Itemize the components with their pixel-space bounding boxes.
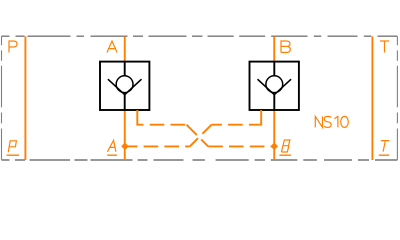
wire P port line <box>24 36 26 160</box>
enclosure border left <box>1 36 3 160</box>
check valve V1 seat <box>108 79 142 95</box>
subplate label T underline <box>379 154 389 156</box>
pilot line V1 upper horizontal (dashed) <box>144 124 187 126</box>
enclosure border bottom <box>2 159 398 161</box>
port label T (top) <box>380 41 389 53</box>
enclosure border right <box>396 36 398 160</box>
pilot line lower left solid stub at node A <box>125 145 137 147</box>
check valve V2 seat <box>258 79 292 95</box>
pilot line lower left dashed <box>137 145 189 147</box>
enclosure border top (subplate outline, dash-dot) <box>2 35 398 37</box>
pilot stub V2 (solid elbow) <box>259 110 261 125</box>
size label NS10 <box>315 116 348 127</box>
wire B port line upper <box>273 36 275 61</box>
port label P (top) <box>9 41 17 53</box>
node B junction diamond <box>271 143 279 151</box>
wire B port line lower <box>273 110 275 160</box>
wire A port line upper <box>124 36 126 61</box>
pilot line lower right dashed (to node B) <box>208 145 274 147</box>
subplate label P (bottom, italic) <box>8 141 16 153</box>
check valve V2 internal line upper <box>273 62 275 76</box>
check valve V2 body <box>250 62 299 110</box>
check valve V1 internal line upper <box>124 62 126 76</box>
pilot stub V1 (solid elbow) <box>137 110 143 125</box>
subplate label B (bottom, italic) <box>281 140 290 152</box>
wire T port line <box>371 36 373 160</box>
port label B (top) <box>281 41 290 53</box>
check valve V1 body <box>100 62 149 110</box>
subplate label P underline <box>7 154 20 156</box>
pilot line V2 upper horizontal (dashed) <box>212 124 260 126</box>
check valve V2 poppet ball <box>266 76 283 93</box>
check valve V1 internal line lower <box>124 95 126 110</box>
wire A port line lower <box>124 110 126 160</box>
check valve V1 poppet ball <box>116 76 133 93</box>
check valve V2 internal line lower <box>273 95 275 110</box>
subplate label B underline <box>279 154 291 156</box>
pilot crossing diagonal ascending <box>190 125 212 147</box>
node A junction diamond <box>121 143 129 151</box>
subplate label A (bottom, italic) <box>107 140 116 151</box>
port label A (top) <box>107 41 117 53</box>
subplate label A underline <box>107 154 117 156</box>
subplate label T (bottom, italic) <box>381 141 390 152</box>
pilot crossing diagonal descending <box>187 125 209 147</box>
